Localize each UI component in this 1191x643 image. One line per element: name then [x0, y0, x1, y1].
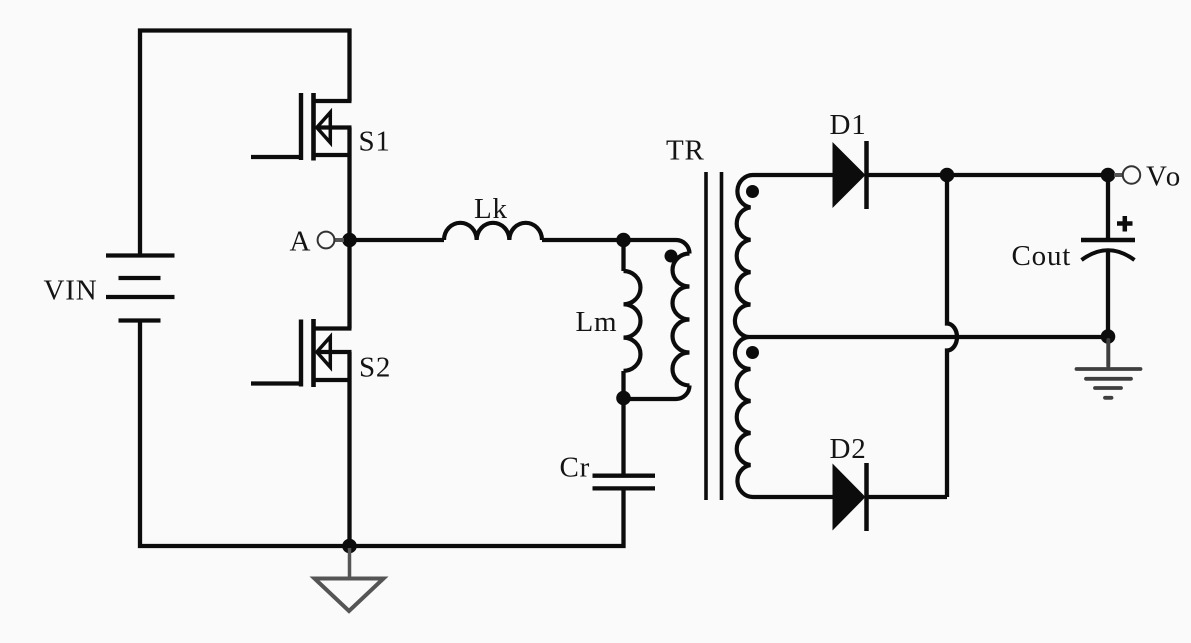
svg-text:VIN: VIN — [44, 275, 98, 307]
svg-text:S2: S2 — [359, 352, 391, 384]
svg-text:TR: TR — [666, 135, 705, 167]
svg-text:D1: D1 — [830, 109, 867, 141]
svg-text:Vo: Vo — [1146, 161, 1183, 193]
svg-text:S1: S1 — [359, 126, 391, 158]
svg-text:Lk: Lk — [474, 193, 508, 225]
svg-text:Cout: Cout — [1012, 240, 1072, 272]
svg-text:Cr: Cr — [560, 451, 591, 483]
svg-text:D2: D2 — [830, 433, 867, 465]
svg-text:A: A — [290, 225, 312, 257]
svg-text:Lm: Lm — [576, 306, 618, 338]
